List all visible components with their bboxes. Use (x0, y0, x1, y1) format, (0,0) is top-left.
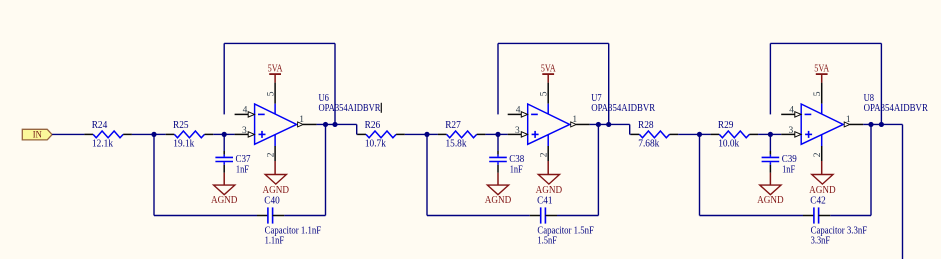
svg-text:1: 1 (572, 115, 577, 125)
svg-text:R26: R26 (365, 120, 381, 131)
wire node B to pin 3 (224, 133, 234, 135)
svg-text:OPA354AIDBVR: OPA354AIDBVR (591, 103, 655, 114)
svg-text:IN: IN (33, 129, 42, 139)
pin 5 of U6 (274, 83, 276, 104)
text cursor (380, 103, 382, 113)
wire R26 to node A of stage 2 (405, 133, 427, 135)
feedback junction (879, 122, 884, 127)
capacitor C39 (769, 134, 771, 151)
svg-text:C38: C38 (509, 154, 524, 165)
svg-text:1nF: 1nF (236, 164, 249, 175)
wire node A down to feedback (699, 134, 701, 215)
svg-text:1.1nF: 1.1nF (265, 235, 285, 246)
resistor R24 (84, 133, 93, 135)
wire R25 to node B (213, 133, 224, 135)
op-amp U7 OPA354AIDBVR (528, 104, 570, 144)
ground AGND under C39 (769, 173, 771, 185)
node A (U8 stage input node) (697, 132, 702, 137)
svg-text:3: 3 (515, 126, 520, 136)
wire node A to R29 (700, 133, 711, 135)
svg-text:12.1k: 12.1k (92, 139, 113, 150)
svg-text:AGND: AGND (757, 195, 784, 206)
svg-text:2: 2 (540, 152, 550, 157)
ground AGND under C37 (223, 173, 225, 185)
pin 1 of U7 (576, 123, 590, 125)
svg-text:R25: R25 (173, 120, 189, 131)
svg-text:2: 2 (813, 152, 823, 157)
svg-text:C42: C42 (810, 195, 825, 206)
wire feedback bottom U6 (154, 215, 257, 217)
op-amp U8 OPA354AIDBVR (801, 104, 843, 144)
svg-text:1.5nF: 1.5nF (537, 235, 557, 246)
svg-text:2: 2 (266, 152, 276, 157)
pin 1 of U6 (303, 123, 317, 125)
pin 3 of U6 (235, 133, 249, 135)
pin 4 of U6 (235, 113, 249, 115)
svg-text:C37: C37 (236, 154, 251, 165)
svg-text:C40: C40 (264, 195, 279, 206)
wire IN to R24 (52, 133, 84, 135)
svg-text:3: 3 (789, 126, 794, 136)
wire U8 output (863, 123, 871, 125)
wire feedback U7 output to pin 4 (497, 43, 499, 114)
svg-text:5: 5 (267, 91, 277, 96)
pin 3 of U8 (781, 133, 795, 135)
resistor R27 (438, 133, 447, 135)
pin 4 of U8 (781, 113, 795, 115)
op-amp U6 OPA354AIDBVR (255, 104, 297, 144)
svg-text:5VA: 5VA (814, 63, 830, 74)
ground AGND at pin 2 of U7 (547, 161, 549, 175)
svg-text:R29: R29 (718, 120, 734, 131)
svg-text:AGND: AGND (263, 185, 290, 196)
svg-text:OPA354AIDBVR: OPA354AIDBVR (319, 103, 381, 114)
svg-text:AGND: AGND (536, 185, 563, 196)
svg-text:AGND: AGND (485, 195, 512, 206)
capacitor C37 (223, 134, 225, 151)
pin 4 of U7 (508, 113, 522, 115)
capacitor C38 (497, 134, 499, 151)
wire node A to R25 (154, 133, 166, 135)
svg-text:4: 4 (516, 106, 521, 116)
resistor R28 (631, 133, 640, 135)
node B (U8 +input node) (768, 132, 773, 137)
capacitor C41 (530, 215, 541, 217)
pin 2 of U6 (274, 135, 276, 147)
output node junction (868, 122, 873, 127)
node B (U7 +input node) (495, 132, 500, 137)
svg-text:1nF: 1nF (782, 164, 795, 175)
svg-text:C41: C41 (537, 195, 552, 206)
wire U6 output to next stage (335, 123, 357, 125)
capacitor C42 (803, 215, 814, 217)
pin 1 of U8 (850, 123, 864, 125)
svg-text:R28: R28 (638, 120, 654, 131)
pin 3 of U7 (508, 133, 522, 135)
wire node A down to feedback (426, 134, 428, 215)
pin 5 of U7 (547, 83, 549, 104)
svg-text:4: 4 (789, 106, 794, 116)
output node junction (596, 122, 601, 127)
port IN (22, 129, 52, 140)
svg-text:3: 3 (242, 126, 247, 136)
resistor R26 (357, 133, 366, 135)
svg-text:5VA: 5VA (541, 63, 557, 74)
resistor R29 (711, 133, 720, 135)
svg-text:4: 4 (243, 106, 248, 116)
svg-text:10.0k: 10.0k (718, 139, 739, 150)
ground AGND at pin 2 of U8 (821, 161, 823, 175)
svg-text:C39: C39 (782, 154, 797, 165)
svg-text:19.1k: 19.1k (173, 139, 194, 150)
wire output to right edge (881, 123, 902, 125)
pin 2 of U8 (821, 135, 823, 147)
svg-text:15.8k: 15.8k (446, 139, 467, 150)
wire node B to pin 3 (498, 133, 508, 135)
svg-text:10.7k: 10.7k (365, 139, 386, 150)
wire node A down to feedback (153, 134, 155, 215)
svg-text:7.68k: 7.68k (638, 139, 659, 150)
svg-text:R27: R27 (445, 120, 461, 131)
wire R27 to node B (485, 133, 498, 135)
ground AGND at pin 2 of U6 (274, 161, 276, 175)
wire feedback bottom U8 (700, 215, 804, 217)
wire feedback U6 output to pin 4 (223, 43, 225, 114)
wire R24 to node A (132, 133, 154, 135)
wire node B to pin 3 (770, 133, 781, 135)
svg-text:1: 1 (299, 115, 304, 125)
svg-text:1: 1 (846, 115, 851, 125)
node A (U6 stage input node) (151, 132, 156, 137)
svg-text:OPA354AIDBVR: OPA354AIDBVR (864, 103, 929, 114)
feedback junction (332, 122, 337, 127)
wire feedback U8 output to pin 4 (769, 43, 771, 114)
svg-text:R24: R24 (92, 120, 108, 131)
wire U7 output (590, 123, 599, 125)
svg-text:1nF: 1nF (510, 164, 523, 175)
svg-text:5: 5 (813, 91, 823, 96)
node A (U7 stage input node) (424, 132, 429, 137)
wire R28 to node A of stage 3 (678, 133, 699, 135)
node B (U6 +input node) (222, 132, 227, 137)
resistor R25 (166, 133, 175, 135)
svg-text:AGND: AGND (809, 185, 836, 196)
svg-text:5: 5 (540, 91, 550, 96)
ground AGND under C38 (497, 173, 499, 185)
svg-text:5VA: 5VA (268, 63, 284, 74)
wire R29 to node B (758, 133, 770, 135)
capacitor C40 (257, 215, 268, 217)
wire U7 output to next stage (609, 123, 630, 125)
svg-text:3.3nF: 3.3nF (811, 235, 831, 246)
pin 2 of U7 (547, 135, 549, 147)
svg-text:AGND: AGND (211, 195, 238, 206)
wire node A to R27 (427, 133, 438, 135)
wire U6 output (317, 123, 326, 125)
pin 5 of U8 (821, 83, 823, 104)
feedback junction (606, 122, 611, 127)
wire feedback bottom U7 (427, 215, 530, 217)
output node junction (323, 122, 328, 127)
